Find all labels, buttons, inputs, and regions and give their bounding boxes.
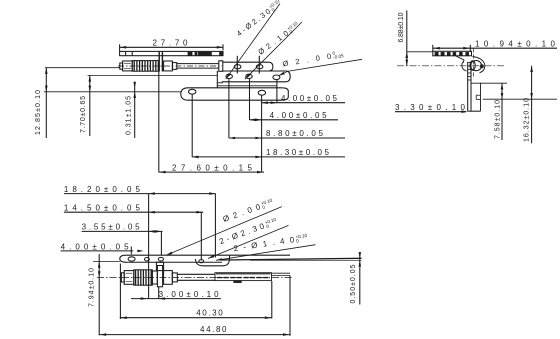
svg-text:4.00±0.05: 4.00±0.05 (61, 242, 130, 251)
svg-text:7.70±0.65: 7.70±0.65 (80, 96, 87, 133)
svg-text:4.00±0.05: 4.00±0.05 (281, 94, 338, 103)
svg-text:3.55±0.05: 3.55±0.05 (82, 223, 141, 232)
svg-text:4.00±0.05: 4.00±0.05 (270, 111, 328, 120)
svg-text:0.50±0.05: 0.50±0.05 (350, 264, 357, 303)
svg-text:0.31±1.05: 0.31±1.05 (126, 96, 133, 135)
svg-text:16.32±0.10: 16.32±0.10 (524, 98, 531, 142)
svg-text:8.80±0.05: 8.80±0.05 (266, 129, 324, 138)
svg-text:40.30: 40.30 (196, 308, 224, 317)
svg-text:3.00±0.10: 3.00±0.10 (159, 290, 220, 299)
svg-text:6.88±0.10: 6.88±0.10 (398, 12, 405, 42)
svg-text:3.30±0.10: 3.30±0.10 (395, 103, 466, 112)
svg-text:7.58±0.10: 7.58±0.10 (495, 100, 502, 139)
svg-text:7.94±0.10: 7.94±0.10 (89, 268, 96, 307)
svg-text:27.70: 27.70 (153, 38, 190, 47)
svg-text:44.80: 44.80 (200, 325, 228, 334)
svg-text:12.85±0.10: 12.85±0.10 (35, 90, 42, 135)
